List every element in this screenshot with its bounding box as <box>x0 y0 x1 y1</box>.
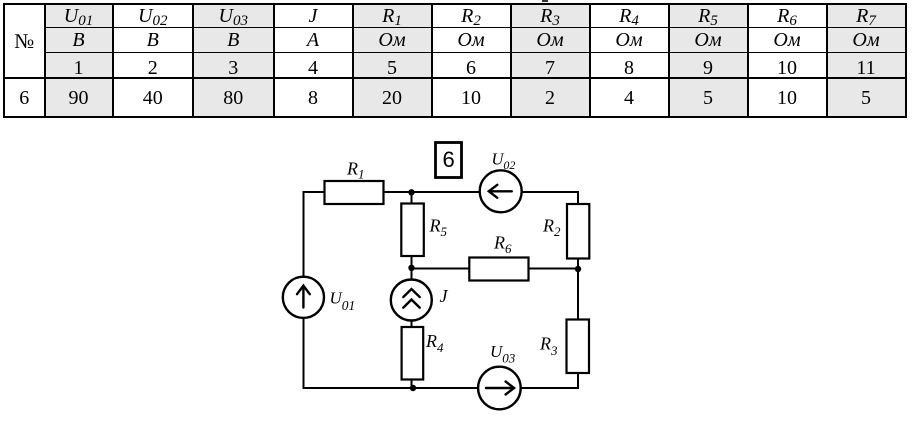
svg-text:R4: R4 <box>425 331 444 355</box>
wire R4 bottom to node C <box>411 380 413 389</box>
resistor R5 <box>401 204 424 257</box>
wire J bottom to R4 top <box>411 321 413 328</box>
J double chevron up <box>403 289 419 297</box>
U02 arrow left <box>490 190 512 192</box>
source U03 circle <box>478 367 521 410</box>
wire top right (U02 right to top-right corner, down to R2) <box>522 192 578 204</box>
source U01 circle <box>283 277 324 318</box>
data table <box>3 3 907 118</box>
svg-text:6: 6 <box>442 147 454 172</box>
node C junction dot <box>410 385 416 391</box>
resistor R1 <box>325 181 384 204</box>
U03 arrow right <box>486 387 512 389</box>
source U02 circle <box>480 170 522 212</box>
node A junction dot <box>408 189 414 195</box>
svg-text:J: J <box>440 286 449 306</box>
wire node D to R6 left <box>412 268 470 270</box>
wire right bottom (R3 bottom to bottom-right corner to U03 right) <box>521 373 578 388</box>
node B junction dot <box>575 266 581 272</box>
svg-text:R5: R5 <box>429 216 448 240</box>
wire R6 right to node B <box>529 268 579 270</box>
wire R5 bottom to J top through node D <box>411 256 413 280</box>
resistor R4 <box>402 327 424 380</box>
current source J circle <box>391 280 432 321</box>
svg-text:R2: R2 <box>542 216 561 240</box>
wire left vertical lower (U01 bottom to bottom-left corner) <box>304 318 414 388</box>
svg-text:U02: U02 <box>492 150 516 173</box>
wire top (R1 right to U02 left, through node A) <box>384 191 480 193</box>
svg-text:U01: U01 <box>330 288 356 313</box>
stray artifact mark top <box>542 0 548 2</box>
wire right vertical (R2 bottom to R3 top through node B) <box>577 259 579 320</box>
wire bottom (U03 left to node C) <box>413 387 478 389</box>
svg-text:R3: R3 <box>539 333 558 358</box>
resistor R6 <box>469 258 528 281</box>
node D junction dot <box>408 265 414 271</box>
U01 arrow up <box>302 286 304 308</box>
wire node A to R5 top <box>411 192 413 204</box>
svg-text:R1: R1 <box>346 159 365 182</box>
variant number box 6 <box>436 143 462 178</box>
svg-text:U03: U03 <box>490 342 516 365</box>
wire left vertical upper (top-left corner to U01 top) <box>304 192 325 277</box>
svg-text:R6: R6 <box>493 233 512 257</box>
resistor R2 <box>567 204 589 259</box>
resistor R3 <box>567 320 590 374</box>
